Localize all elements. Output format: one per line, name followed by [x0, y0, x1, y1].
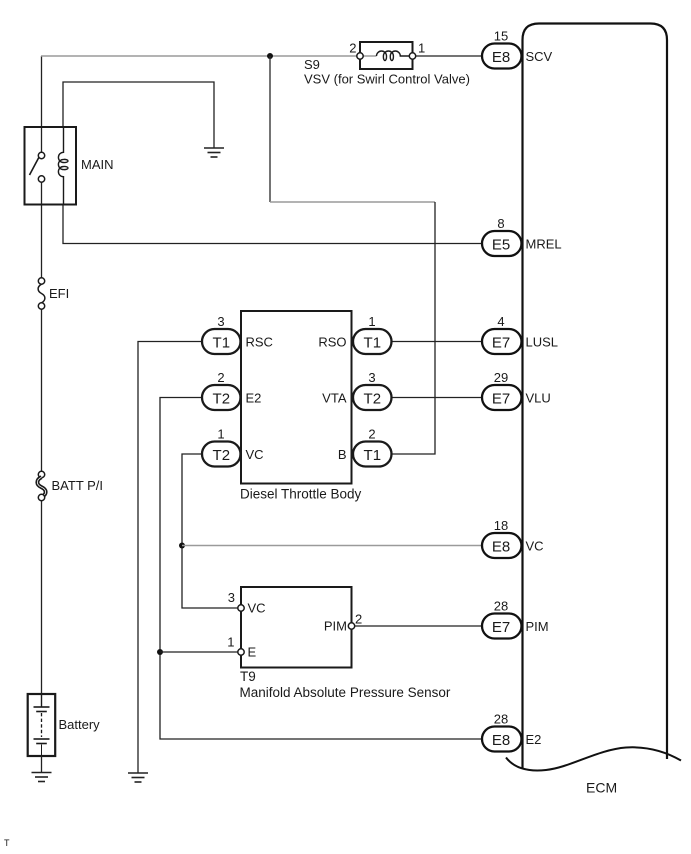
svg-text:VC: VC	[526, 539, 544, 554]
wire RSO to ECM LUSL	[392, 341, 483, 343]
svg-text:E7: E7	[492, 619, 510, 636]
svg-text:LUSL: LUSL	[526, 335, 559, 350]
svg-text:EFI: EFI	[49, 286, 69, 301]
svg-text:BATT P/I: BATT P/I	[52, 478, 104, 493]
svg-text:RSO: RSO	[318, 335, 346, 350]
connector E7 (PIM)	[482, 614, 522, 639]
svg-text:T1: T1	[213, 335, 231, 352]
wire junction to MAP sensor E terminal	[160, 651, 238, 653]
MAP terminal 3 (VC)	[238, 605, 244, 611]
svg-text:T1: T1	[364, 335, 382, 352]
connector T2 (VTA)	[353, 385, 392, 410]
svg-text:RSC: RSC	[246, 335, 273, 350]
VSV coil	[377, 51, 413, 61]
wire battery to ground	[41, 756, 43, 773]
svg-text:E2: E2	[526, 732, 542, 747]
VSV terminal 2	[357, 53, 363, 59]
connector E7 (LUSL)	[482, 329, 522, 354]
VSV terminal 1	[409, 53, 415, 59]
svg-text:T2: T2	[213, 391, 231, 408]
svg-text:Battery: Battery	[59, 717, 101, 732]
svg-text:B: B	[338, 447, 347, 462]
svg-text:2: 2	[355, 612, 362, 627]
connector E7 (VLU)	[482, 385, 522, 410]
svg-text:3: 3	[368, 370, 375, 385]
wire VSV to ECM SCV	[413, 55, 483, 57]
svg-text:VSV (for Swirl Control Valve): VSV (for Swirl Control Valve)	[304, 72, 470, 87]
node junction at (182,545)	[179, 543, 185, 549]
svg-text:29: 29	[494, 370, 508, 385]
MAP sensor T9 box	[241, 587, 352, 668]
connector T1 (RSO)	[353, 329, 392, 354]
MAP terminal 2 (PIM)	[348, 623, 354, 629]
ground G2 (battery)	[32, 773, 52, 782]
MAP terminal 1 (E)	[238, 649, 244, 655]
wire junction down to y=202	[269, 56, 271, 202]
wire MAP PIM to ECM PIM	[354, 625, 482, 627]
connector T1 (B)	[353, 442, 392, 467]
svg-text:T9: T9	[240, 669, 256, 684]
svg-text:MAIN: MAIN	[81, 157, 114, 172]
wire horizontal y=202 (gray)	[270, 201, 435, 203]
svg-text:28: 28	[494, 599, 508, 614]
svg-text:E8: E8	[492, 49, 510, 66]
svg-text:VLU: VLU	[526, 391, 551, 406]
relay switch contact top	[38, 152, 44, 158]
svg-text:VC: VC	[248, 601, 266, 616]
connector E8 (E2)	[482, 727, 522, 752]
relay MAIN box	[25, 127, 77, 205]
svg-text:1: 1	[418, 41, 425, 56]
svg-text:PIM: PIM	[324, 619, 347, 634]
svg-text:E8: E8	[492, 539, 510, 556]
svg-text:4: 4	[497, 314, 504, 329]
relay switch arm	[30, 158, 39, 176]
wire RSC to ground	[138, 342, 202, 774]
svg-text:T2: T2	[213, 447, 231, 464]
svg-text:2: 2	[217, 370, 224, 385]
wire E2 throttle to ECM E2 (via x=161)	[160, 398, 482, 740]
wire top row B+ to VSV (gray)	[41, 55, 377, 57]
throttle body box	[241, 311, 352, 484]
wire VTA to ECM VLU	[392, 397, 483, 399]
ground G1 (MAIN relay coil)	[204, 148, 224, 157]
svg-text:2: 2	[368, 427, 375, 442]
fuse EFI	[38, 278, 45, 309]
wire VC throttle down (x=182) to MAP VC	[182, 454, 238, 608]
svg-text:18: 18	[494, 518, 508, 533]
svg-text:MREL: MREL	[526, 237, 562, 252]
wire VC junction to ECM VC (gray)	[182, 545, 482, 547]
svg-text:1: 1	[227, 635, 234, 650]
node junction at (161,652)	[157, 649, 163, 655]
svg-text:VTA: VTA	[322, 391, 347, 406]
svg-text:3: 3	[228, 590, 235, 605]
connector E8 (VC)	[482, 533, 522, 558]
svg-text:Manifold Absolute Pressure Sen: Manifold Absolute Pressure Sensor	[240, 685, 451, 700]
connector E5 (MREL)	[482, 231, 522, 256]
svg-text:E: E	[248, 645, 257, 660]
svg-text:3: 3	[217, 314, 224, 329]
svg-text:PIM: PIM	[526, 619, 549, 634]
relay coil	[58, 127, 68, 204]
wire vertical x=435 down to B terminal row	[392, 202, 436, 454]
svg-text:T2: T2	[364, 391, 382, 408]
svg-text:SCV: SCV	[526, 49, 553, 64]
svg-text:ECM: ECM	[586, 780, 617, 796]
svg-text:E7: E7	[492, 335, 510, 352]
svg-text:S9: S9	[304, 57, 320, 72]
svg-text:28: 28	[494, 712, 508, 727]
svg-text:2: 2	[349, 41, 356, 56]
svg-text:15: 15	[494, 29, 508, 44]
ECM body outline	[523, 24, 668, 770]
svg-text:1: 1	[368, 314, 375, 329]
ground G3 (RSC)	[128, 773, 148, 782]
connector E8 (SCV)	[482, 44, 522, 69]
connector T1 (RSC)	[202, 329, 241, 354]
wire MAIN coil bottom to ECM MREL	[63, 204, 482, 244]
connector T2 (VC)	[202, 442, 241, 467]
svg-text:8: 8	[497, 216, 504, 231]
svg-text:E7: E7	[492, 391, 510, 408]
svg-text:T: T	[4, 838, 10, 848]
relay switch contact bottom	[38, 176, 44, 182]
svg-text:Diesel Throttle Body: Diesel Throttle Body	[240, 487, 362, 502]
svg-text:E5: E5	[492, 237, 510, 254]
VSV S9 coil box	[360, 42, 413, 69]
fusible link BATT P/I	[37, 471, 45, 500]
svg-text:E2: E2	[246, 391, 262, 406]
wire battery positive vertical (x=41)	[41, 56, 43, 694]
battery	[28, 694, 56, 756]
svg-text:T1: T1	[364, 447, 382, 464]
node junction at (270,56)	[267, 53, 273, 59]
ECM torn bottom edge	[506, 747, 681, 770]
wire MAIN coil top to ground	[63, 82, 214, 148]
connector T2 (E2)	[202, 385, 241, 410]
svg-text:VC: VC	[246, 447, 264, 462]
svg-text:1: 1	[217, 427, 224, 442]
svg-text:E8: E8	[492, 732, 510, 749]
